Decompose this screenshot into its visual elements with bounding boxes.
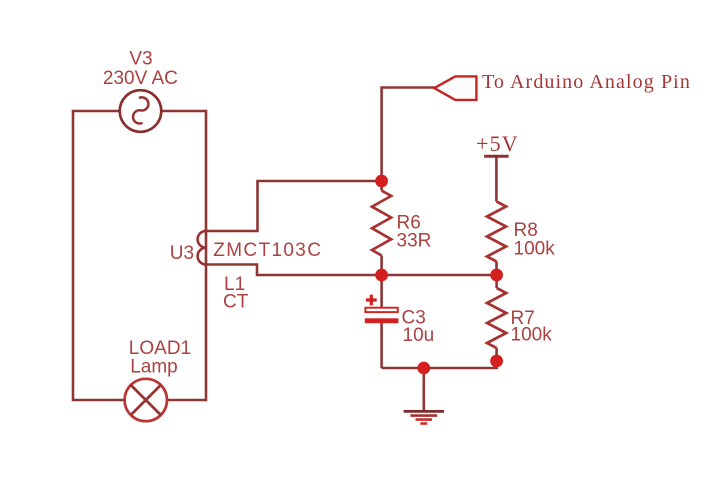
node B junction dot xyxy=(375,269,388,282)
svg-text:ZMCT103C: ZMCT103C xyxy=(213,240,322,261)
svg-text:100k: 100k xyxy=(514,239,556,260)
wire top-left horizontal to V3 xyxy=(73,110,120,113)
+5V supply bar xyxy=(484,155,508,158)
wire V3 right to corner xyxy=(161,110,206,113)
wire CT secondary bottom tap xyxy=(206,265,382,276)
wire +5V stem xyxy=(495,156,498,201)
svg-text:To Arduino Analog Pin: To Arduino Analog Pin xyxy=(482,71,691,93)
voltage source V3 circle xyxy=(120,90,162,132)
wire CT secondary top tap xyxy=(206,181,382,231)
wire node A up to flag xyxy=(382,88,435,183)
wire R7 bottom lead xyxy=(495,348,498,361)
svg-text:10u: 10u xyxy=(403,325,435,346)
wire ground stem xyxy=(422,368,425,411)
transformer U1 secondary coil xyxy=(198,231,206,265)
wire R7 top lead xyxy=(495,275,498,288)
capacitor C3 polarity plus xyxy=(366,295,377,306)
capacitor C3 top plate xyxy=(365,308,397,312)
node E R7 bottom dot xyxy=(490,355,503,368)
capacitor C3 bottom plate xyxy=(365,318,399,323)
resistor R6 xyxy=(372,191,391,256)
wire C3 top lead xyxy=(380,275,383,308)
node C junction dot xyxy=(490,269,503,282)
svg-text:V3: V3 xyxy=(129,49,152,70)
resistor R7 xyxy=(487,288,506,348)
wire bottom net node B to node C xyxy=(382,274,497,277)
wire left vertical xyxy=(72,110,75,402)
wire R8 bottom lead xyxy=(495,262,498,276)
svg-text:U3: U3 xyxy=(170,243,194,264)
wire C3 bottom lead xyxy=(380,323,383,368)
svg-text:230V AC: 230V AC xyxy=(103,68,178,89)
svg-text:CT: CT xyxy=(223,292,249,313)
wire R6 top lead xyxy=(380,181,383,191)
wire ground net xyxy=(382,361,497,368)
lamp LOAD1 xyxy=(125,379,167,421)
node A junction dot xyxy=(375,175,388,188)
svg-text:+5V: +5V xyxy=(476,131,519,156)
svg-text:33R: 33R xyxy=(397,231,432,252)
node D ground junction dot xyxy=(417,362,430,375)
wire right vertical (primary through CT) xyxy=(205,110,208,402)
wire lamp to right corner xyxy=(167,399,206,402)
flag to Arduino analog pin xyxy=(434,76,476,100)
svg-text:Lamp: Lamp xyxy=(130,357,178,378)
svg-text:100k: 100k xyxy=(511,325,553,346)
wire bottom-left to lamp xyxy=(73,399,125,402)
resistor R8 xyxy=(487,202,506,262)
wire R6 bottom lead xyxy=(380,256,383,276)
ground symbol xyxy=(404,411,444,423)
